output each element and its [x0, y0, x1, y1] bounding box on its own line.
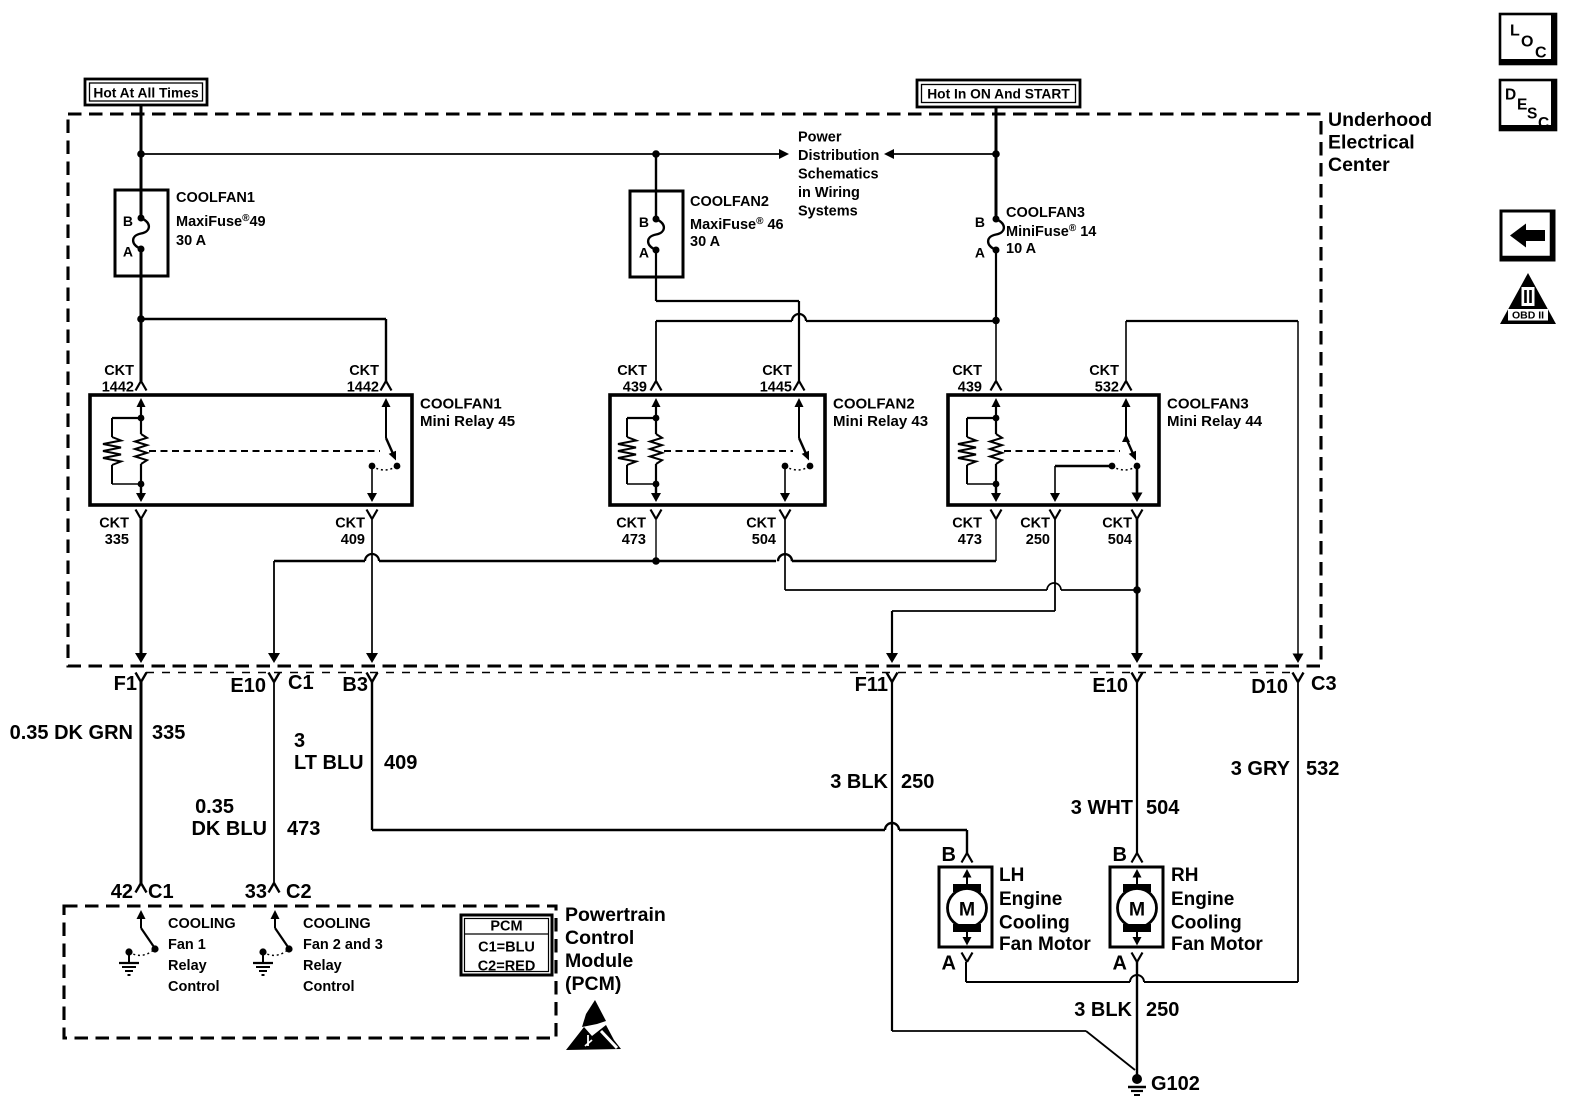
label: 3 WHT 504	[1071, 797, 1180, 819]
svg-text:3 GRY: 3 GRY	[1231, 758, 1291, 780]
svg-text:Fan Motor: Fan Motor	[999, 934, 1091, 955]
svg-text:473: 473	[622, 532, 646, 548]
svg-text:Engine: Engine	[999, 889, 1062, 910]
label: terminal F11	[855, 674, 888, 696]
svg-text:B: B	[1113, 844, 1127, 866]
svg-text:3 WHT: 3 WHT	[1071, 797, 1133, 819]
label: terminal B3	[342, 674, 368, 696]
motor M2 RH Engine Cooling Fan Motor	[1110, 844, 1163, 975]
svg-text:B: B	[942, 844, 956, 866]
wire: rail drop to fuse COOLFAN2	[655, 154, 657, 219]
label: 3 LT BLU 409	[294, 730, 417, 774]
wire: CKT 1442 branch to relay switch	[141, 319, 386, 381]
node: connector fork at relay44 switch input	[1121, 381, 1132, 391]
label: COOLFAN3 Mini Relay 44	[1167, 396, 1263, 431]
svg-text:Engine: Engine	[1171, 889, 1234, 910]
svg-text:CKT: CKT	[335, 516, 365, 532]
svg-text:1442: 1442	[102, 380, 134, 396]
svg-text:Mini Relay 45: Mini Relay 45	[420, 413, 515, 430]
svg-text:335: 335	[105, 532, 129, 548]
PCM connector table	[461, 915, 552, 975]
label: CKT 1442 (relay 45 switch)	[347, 363, 379, 396]
label "Hot At All Times"	[85, 79, 207, 105]
svg-text:Underhood: Underhood	[1328, 109, 1432, 131]
node: UEC terminal fork E10/C1	[269, 673, 280, 683]
svg-text:CKT: CKT	[349, 363, 379, 379]
svg-text:COOLFAN1: COOLFAN1	[176, 190, 255, 206]
svg-text:L: L	[1510, 23, 1520, 40]
wire: CKT 504 to E10	[1131, 519, 1143, 663]
wire: F11 BLK 250 bottom run to G102	[892, 1031, 1135, 1070]
svg-text:MaxiFuse®49: MaxiFuse®49	[176, 213, 266, 230]
svg-text:COOLING: COOLING	[303, 916, 371, 932]
button: back arrow	[1501, 211, 1554, 260]
motor M1 LH Engine Cooling Fan Motor	[939, 844, 992, 975]
wire: Hot In ON And START feed down	[995, 107, 998, 219]
svg-text:C2=RED: C2=RED	[478, 959, 536, 975]
svg-text:B: B	[639, 214, 649, 230]
svg-text:3 BLK: 3 BLK	[830, 771, 888, 793]
svg-text:Powertrain: Powertrain	[565, 904, 666, 926]
wire: CKT 439 rail to relay 43 coil	[656, 314, 996, 381]
svg-text:3 BLK: 3 BLK	[1074, 999, 1132, 1021]
svg-text:0.35: 0.35	[195, 796, 234, 818]
icon: OBD II triangle	[1500, 273, 1556, 324]
svg-text:Control: Control	[168, 979, 220, 995]
svg-text:Hot At All Times: Hot At All Times	[93, 86, 199, 101]
svg-text:COOLING: COOLING	[168, 916, 236, 932]
svg-text:OBD II: OBD II	[1512, 310, 1544, 322]
node: connector fork at relay45 coil input	[136, 381, 147, 391]
svg-text:MiniFuse® 14: MiniFuse® 14	[1006, 223, 1096, 240]
svg-text:COOLFAN3: COOLFAN3	[1167, 396, 1249, 413]
label: COOLFAN2 MaxiFuse 46 30 A	[690, 194, 784, 250]
label: CKT 1445 (relay 43 switch)	[760, 363, 792, 396]
svg-text:Cooling: Cooling	[1171, 913, 1242, 934]
svg-text:COOLFAN1: COOLFAN1	[420, 396, 502, 413]
node: UEC terminal fork B3	[367, 673, 378, 683]
node: connector fork at relay44 coil input	[991, 381, 1002, 391]
node: UEC terminal fork E10	[1132, 673, 1143, 683]
label: Powertrain Control Module (PCM)	[565, 904, 666, 995]
wire: CKT 532 GRY D10 down to LH fan motor A	[966, 682, 1298, 982]
svg-text:439: 439	[623, 380, 647, 396]
svg-text:Systems: Systems	[798, 204, 858, 220]
label: CKT 439 (relay 44 coil)	[952, 363, 982, 396]
label: COOLING Fan 1 Relay Control	[168, 916, 236, 995]
label: 3 GRY 532	[1231, 758, 1340, 780]
label "Hot In ON And START"	[917, 80, 1080, 107]
button: DESC	[1500, 80, 1556, 132]
svg-text:A: A	[942, 953, 956, 975]
svg-text:C: C	[1538, 115, 1549, 132]
svg-text:C1=BLU: C1=BLU	[478, 940, 535, 956]
svg-text:E10: E10	[230, 675, 266, 697]
label: COOLFAN3 MiniFuse 14 10 A	[1006, 205, 1096, 257]
fuse COOLFAN1 MaxiFuse 49 30A	[115, 190, 168, 276]
svg-text:Center: Center	[1328, 154, 1390, 176]
svg-text:B3: B3	[342, 674, 368, 696]
label: PCM pin 33	[245, 881, 267, 903]
svg-text:LT BLU: LT BLU	[294, 752, 364, 774]
svg-text:1442: 1442	[347, 380, 379, 396]
wire: CKT 250 BLK F11 down to ground run	[891, 682, 893, 1031]
wire: RH fan motor A to G102	[1136, 962, 1138, 1076]
svg-text:COOLFAN2: COOLFAN2	[833, 396, 915, 413]
wire: CKT 532 rail segment	[1126, 321, 1298, 381]
node: junction battery rail at (141,154)	[137, 150, 145, 158]
label: CKT 1442 (relay 45 coil)	[102, 363, 134, 396]
node: junction below fuse COOLFAN1	[137, 315, 145, 323]
svg-text:S: S	[1527, 106, 1537, 123]
svg-text:Relay: Relay	[303, 958, 342, 974]
svg-text:Mini Relay 44: Mini Relay 44	[1167, 413, 1263, 430]
transistor driver Q1: cooling fan 1 relay control	[119, 910, 159, 975]
fuse COOLFAN2 MaxiFuse 46 30A	[630, 191, 683, 277]
svg-text:B: B	[123, 213, 133, 229]
svg-text:473: 473	[287, 818, 320, 840]
svg-text:Control: Control	[303, 979, 355, 995]
node: junction CKT 504	[1133, 586, 1141, 594]
svg-text:30 A: 30 A	[690, 234, 721, 250]
wire: CKT 473 DK BLU to PCM 33/C2	[269, 682, 280, 893]
label: PCM pin 42	[111, 881, 133, 903]
relay U45 COOLFAN1 Mini Relay 45 (box, coil, resistor, switch)	[90, 395, 412, 505]
svg-text:Control: Control	[565, 927, 634, 949]
node: connector fork at CKT 250 output	[1050, 510, 1061, 520]
node: connector fork at CKT 473a output	[651, 510, 662, 520]
wire: CKT 335 DK GRN to PCM 42/C1	[136, 682, 147, 893]
svg-text:CKT: CKT	[952, 363, 982, 379]
svg-text:M: M	[1129, 899, 1145, 921]
label: terminal E10 (left)	[230, 675, 266, 697]
svg-text:DK BLU: DK BLU	[191, 818, 267, 840]
label: Power Distribution Schematics note	[798, 130, 879, 220]
svg-text:504: 504	[1108, 532, 1132, 548]
label: RH Engine Cooling Fan Motor	[1171, 865, 1263, 955]
button: LOC	[1500, 14, 1556, 64]
svg-text:CKT: CKT	[746, 516, 776, 532]
svg-text:(PCM): (PCM)	[565, 973, 621, 995]
svg-text:CKT: CKT	[104, 363, 134, 379]
svg-text:409: 409	[384, 752, 417, 774]
svg-text:MaxiFuse® 46: MaxiFuse® 46	[690, 216, 784, 233]
svg-text:439: 439	[958, 380, 982, 396]
svg-text:409: 409	[341, 532, 365, 548]
svg-text:335: 335	[152, 722, 185, 744]
node: connector fork at CKT 335 output	[136, 510, 147, 520]
label: PCM pin C1	[148, 881, 174, 903]
svg-text:Mini Relay 43: Mini Relay 43	[833, 413, 928, 430]
svg-text:B: B	[975, 214, 985, 230]
svg-text:532: 532	[1095, 380, 1119, 396]
wire: CKT 473 bus to E10/C1	[268, 519, 996, 663]
wire: CKT 409 LT BLU to LH fan motor B	[372, 682, 973, 863]
svg-text:CKT: CKT	[1102, 516, 1132, 532]
node: connector fork at relay43 coil input	[651, 381, 662, 391]
Powertrain Control Module dashed box	[64, 906, 556, 1038]
svg-text:Module: Module	[565, 950, 633, 972]
svg-text:0.35 DK GRN: 0.35 DK GRN	[10, 722, 133, 744]
label: CKT 473 (relay 44)	[952, 516, 982, 549]
svg-text:532: 532	[1306, 758, 1339, 780]
svg-text:Cooling: Cooling	[999, 913, 1070, 934]
svg-text:O: O	[1521, 34, 1533, 51]
svg-text:10 A: 10 A	[1006, 241, 1037, 257]
svg-text:CKT: CKT	[1020, 516, 1050, 532]
svg-text:Power: Power	[798, 130, 842, 146]
icon: ESD sensitive symbol	[566, 1000, 621, 1050]
node: UEC terminal fork F1	[136, 673, 147, 683]
svg-text:Electrical: Electrical	[1328, 132, 1415, 154]
svg-text:LH: LH	[999, 865, 1024, 886]
node: connector fork at relay45 switch input	[381, 381, 392, 391]
svg-text:C2: C2	[286, 881, 312, 903]
label: terminal E10 (right)	[1092, 675, 1128, 697]
label: COOLFAN2 Mini Relay 43	[833, 396, 928, 431]
label: LH Engine Cooling Fan Motor	[999, 865, 1091, 955]
svg-text:F1: F1	[114, 673, 137, 695]
svg-text:CKT: CKT	[762, 363, 792, 379]
wire: fuse COOLFAN3 output	[995, 250, 997, 321]
node: UEC terminal fork F11	[887, 673, 898, 683]
svg-text:COOLFAN3: COOLFAN3	[1006, 205, 1085, 221]
node: connector fork at CKT 409 output	[367, 510, 378, 520]
svg-text:Distribution: Distribution	[798, 148, 879, 164]
svg-text:Fan Motor: Fan Motor	[1171, 934, 1263, 955]
svg-text:42: 42	[111, 881, 133, 903]
svg-text:D: D	[1505, 87, 1516, 104]
label: 3 BLK 250 (ground)	[1074, 999, 1179, 1021]
label: COOLFAN1 MaxiFuse 49 30 A	[176, 190, 266, 249]
svg-text:1445: 1445	[760, 380, 792, 396]
svg-text:250: 250	[901, 771, 934, 793]
svg-text:G102: G102	[1151, 1073, 1200, 1095]
transistor driver Q2: cooling fan 2 and 3 relay control	[253, 910, 293, 975]
svg-text:3: 3	[294, 730, 305, 752]
svg-text:CKT: CKT	[617, 363, 647, 379]
svg-text:A: A	[123, 244, 133, 260]
svg-text:250: 250	[1146, 999, 1179, 1021]
label: terminal D10	[1251, 676, 1288, 698]
label: terminal C3	[1311, 673, 1337, 695]
label: COOLING Fan 2 and 3 Relay Control	[303, 916, 383, 995]
svg-text:A: A	[1113, 953, 1127, 975]
label: CKT 439 (relay 43 coil)	[617, 363, 647, 396]
svg-text:RH: RH	[1171, 865, 1198, 886]
relay U44 switch contacts to CKT 504 and CKT 250	[1050, 434, 1143, 502]
svg-text:in Wiring: in Wiring	[798, 185, 860, 201]
wire: CKT 439 drop to relay 44 coil	[995, 321, 997, 382]
svg-text:C1: C1	[288, 672, 314, 694]
node: junction CKT 439 rail	[992, 317, 1000, 325]
Underhood Electrical Center label	[1328, 109, 1432, 176]
label: CKT 409	[335, 516, 365, 549]
node: connector fork at CKT 504b output	[1132, 510, 1143, 520]
wire: CKT 409 relay 45 to B3	[366, 519, 378, 663]
label: CKT 504 (relay 44)	[1102, 516, 1132, 549]
fuse COOLFAN3 MiniFuse 14 10A	[975, 214, 1004, 261]
in-line connector dashed line (UEC bottom)	[146, 672, 1298, 674]
label: terminal C1 (PCM side)	[288, 672, 314, 694]
svg-text:C: C	[1535, 45, 1547, 62]
svg-text:CKT: CKT	[1089, 363, 1119, 379]
wire: battery rail to Power Distribution (left)	[141, 149, 789, 159]
label: 0.35 DK GRN 335	[10, 722, 186, 744]
svg-text:M: M	[959, 899, 975, 921]
svg-text:Fan 1: Fan 1	[168, 937, 206, 953]
node: UEC terminal fork D10/C3	[1293, 673, 1304, 683]
svg-text:C3: C3	[1311, 673, 1337, 695]
svg-text:Hot In ON And START: Hot In ON And START	[927, 87, 1070, 102]
node: junction CKT 473 at relay 43	[652, 557, 660, 565]
label: CKT 504 (relay 43)	[746, 516, 776, 549]
wire: CKT 335 relay 45 to F1	[135, 519, 147, 663]
svg-text:Relay: Relay	[168, 958, 207, 974]
svg-text:E: E	[1517, 97, 1527, 114]
wire: CKT 504 bus relay43 to relay44	[785, 519, 1137, 590]
svg-text:D10: D10	[1251, 676, 1288, 698]
svg-text:33: 33	[245, 881, 267, 903]
label: G102	[1151, 1073, 1200, 1095]
label: 0.35 DK BLU 473	[191, 796, 320, 840]
svg-text:Schematics: Schematics	[798, 167, 879, 183]
svg-text:504: 504	[1146, 797, 1180, 819]
wire: fuse COOLFAN2 output to CKT 1445	[656, 250, 799, 381]
wire: CKT 504 WHT to RH fan motor B	[1132, 682, 1143, 863]
label: CKT 250 (relay 44)	[1020, 516, 1050, 549]
ground G102	[1128, 1074, 1146, 1095]
label: CKT 473 (relay 43)	[616, 516, 646, 549]
wire: CKT 532 to D10/C3	[1293, 321, 1304, 663]
svg-text:CKT: CKT	[952, 516, 982, 532]
label: PCM pin C2	[286, 881, 312, 903]
wire: ignition rail from Hot In ON And START (right)	[884, 149, 996, 159]
wire: fuse COOLFAN1 output	[140, 249, 143, 381]
svg-text:30 A: 30 A	[176, 233, 207, 249]
node: junction fuse COOLFAN2 tap	[652, 150, 660, 158]
svg-text:250: 250	[1026, 532, 1050, 548]
wire: Hot At All Times feed down to fuse COOLFAN1	[140, 105, 143, 218]
label: CKT 335	[99, 516, 129, 549]
svg-text:CKT: CKT	[616, 516, 646, 532]
label: terminal F1	[114, 673, 137, 695]
svg-text:Fan 2 and 3: Fan 2 and 3	[303, 937, 383, 953]
svg-text:C1: C1	[148, 881, 174, 903]
svg-text:COOLFAN2: COOLFAN2	[690, 194, 769, 210]
svg-text:CKT: CKT	[99, 516, 129, 532]
label: COOLFAN1 Mini Relay 45	[420, 396, 515, 431]
Underhood Electrical Center dashed box	[68, 114, 1321, 666]
svg-text:PCM: PCM	[490, 919, 522, 935]
svg-text:A: A	[639, 245, 649, 261]
svg-text:504: 504	[752, 532, 776, 548]
node: connector fork at relay43 switch input	[794, 381, 805, 391]
relay U43 COOLFAN2 Mini Relay 43 (box, coil, resistor, switch)	[610, 395, 825, 505]
svg-text:A: A	[975, 245, 985, 261]
node: junction ignition rail at (996,154)	[992, 150, 1000, 158]
svg-text:F11: F11	[855, 674, 888, 696]
relay U44 COOLFAN3 Mini Relay 44 (box, coil, resistor, switch)	[948, 395, 1159, 505]
node: connector fork at CKT 473b output	[991, 510, 1002, 520]
label: CKT 532 (relay 44 switch)	[1089, 363, 1119, 396]
svg-text:E10: E10	[1092, 675, 1128, 697]
label: 3 BLK 250 (F11)	[830, 771, 934, 793]
svg-text:473: 473	[958, 532, 982, 548]
node: connector fork at CKT 504a output	[780, 510, 791, 520]
wire: CKT 250 relay 44 to F11	[886, 519, 1055, 663]
